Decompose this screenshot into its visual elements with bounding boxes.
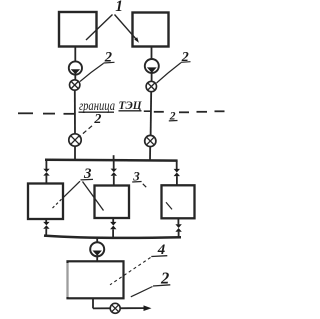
- wire top manifold: [45, 159, 178, 162]
- valve V3 (left, below boundary): [69, 134, 81, 146]
- leader from label 1 to right box (with arrowhead): [115, 15, 139, 43]
- svg-text:1: 1: [115, 0, 123, 15]
- pump P2: [145, 59, 159, 73]
- valve (gate) above left consumer: [43, 169, 49, 176]
- wire below middle consumer: [112, 218, 114, 222]
- wire left feed pipe mid: [74, 74, 76, 81]
- box consumer right: [162, 185, 195, 218]
- wire outlet horizontal: [93, 307, 144, 309]
- wire outlet down from box 4: [92, 299, 94, 309]
- wire into middle consumer: [113, 176, 115, 186]
- wire drop to right consumer: [176, 161, 178, 169]
- faded left edge of box 4: [66, 263, 69, 297]
- valve (gate) below right consumer: [175, 224, 181, 231]
- wire left feed pipe upper: [74, 47, 76, 63]
- wire drop to left consumer: [45, 160, 47, 169]
- label 2 (top left): [80, 50, 115, 82]
- box consumer middle: [95, 186, 130, 219]
- wire left to bottom manifold: [45, 229, 47, 236]
- valve (gate) above middle consumer: [111, 169, 117, 176]
- wire left feed pipe to manifold: [74, 146, 76, 161]
- valve (gate) below middle consumer: [110, 222, 116, 229]
- box source unit left: [59, 12, 97, 47]
- label 2 (below граница): [79, 112, 101, 137]
- valve V4 (right, below boundary): [145, 135, 156, 146]
- wire drop to middle consumer: [113, 160, 115, 169]
- wire below right consumer: [177, 218, 179, 224]
- box peak boiler unit 4: [68, 261, 124, 298]
- box consumer left: [28, 184, 63, 220]
- valve V2: [146, 81, 156, 91]
- wire into right consumer: [176, 176, 178, 186]
- wire manifold to pump: [96, 237, 98, 243]
- wire bottom manifold: [44, 236, 181, 238]
- leader from label 1 to left box: [86, 15, 113, 41]
- valve (gate) above right consumer: [174, 169, 180, 176]
- label 2 (on boundary, right): [169, 111, 178, 123]
- box source unit right: [133, 13, 169, 47]
- wire below left consumer: [45, 219, 47, 222]
- wire pump to peak boiler: [96, 256, 98, 261]
- label 1: [115, 0, 123, 15]
- valve V5 (outlet): [110, 303, 120, 313]
- node tick above manifold (middle): [113, 155, 115, 160]
- underline граница: [79, 111, 115, 113]
- underline ТЭЦ: [119, 110, 142, 112]
- wire middle to bottom manifold: [112, 229, 114, 237]
- label 4: [110, 242, 167, 285]
- wire right feed pipe lower: [150, 91, 153, 137]
- wire right feed pipe mid: [151, 73, 153, 83]
- arrow outlet: [144, 305, 152, 311]
- label 3 (second): [132, 168, 172, 209]
- label 3 (first): [52, 166, 104, 211]
- valve (gate) below left consumer: [43, 222, 49, 229]
- svg-text:2: 2: [93, 112, 101, 127]
- label 2 (bottom): [131, 268, 171, 297]
- dash before right pipe: [144, 110, 151, 112]
- text граница ТЭЦ: [79, 98, 142, 114]
- pump P3: [90, 242, 104, 256]
- dashed boundary line (left part): [18, 112, 74, 115]
- wire into left consumer: [45, 176, 47, 184]
- dashed boundary line (right part): [154, 111, 225, 112]
- label 2 (top right): [157, 50, 191, 83]
- wire left feed pipe lower: [74, 90, 76, 135]
- svg-text:ТЭЦ: ТЭЦ: [119, 98, 143, 112]
- wire right feed pipe to manifold: [149, 146, 151, 161]
- pump P1: [69, 61, 82, 74]
- wire right to bottom manifold: [178, 232, 180, 238]
- valve V1: [70, 80, 80, 90]
- wire right feed pipe upper: [151, 47, 153, 61]
